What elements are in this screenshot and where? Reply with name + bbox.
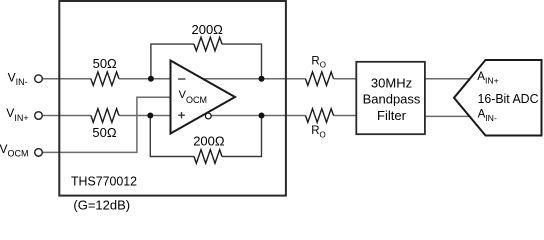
wire V_IN+ input segment <box>42 115 91 117</box>
wire Ro top to filter <box>334 78 357 80</box>
wire Ro bottom to filter <box>334 115 357 117</box>
resistor 50 ohm upper <box>91 72 119 86</box>
svg-text:50Ω: 50Ω <box>92 125 116 140</box>
terminal circle V_OCM <box>35 149 43 157</box>
filter block box <box>356 62 425 134</box>
ADC pin label A_IN- <box>478 108 497 123</box>
wire output top <box>196 78 306 80</box>
label Ro bottom <box>311 125 326 139</box>
svg-text:Bandpass: Bandpass <box>363 92 421 107</box>
svg-text:16-Bit ADC: 16-Bit ADC <box>478 91 539 106</box>
op-amp VOCM pin label <box>179 89 207 105</box>
filter block text <box>363 76 421 123</box>
wire output bottom <box>206 115 306 117</box>
wire filter to ADC A_IN+ <box>425 78 471 80</box>
label V_IN- <box>8 71 28 88</box>
wire V_IN+ to amp <box>119 115 171 117</box>
terminal circle V_IN- <box>35 75 43 83</box>
wire feedback loop top <box>151 44 262 79</box>
op-amp U1 triangle <box>171 61 236 134</box>
node junction dot bottom-left <box>147 113 153 119</box>
svg-text:200Ω: 200Ω <box>193 133 225 148</box>
label Ro top <box>311 55 326 69</box>
terminal circle V_IN+ <box>35 112 43 120</box>
ADC U2 pentagon <box>454 60 542 136</box>
svg-text:(G=12dB): (G=12dB) <box>73 198 130 213</box>
THS770012 boundary box <box>59 1 286 196</box>
resistor 50 ohm lower <box>91 109 119 123</box>
wire V_IN- input segment <box>42 78 91 80</box>
wire V_IN- to amp <box>119 78 171 80</box>
resistor Ro bottom <box>306 109 334 123</box>
node junction dot top-left <box>148 76 154 82</box>
op-amp minus input label <box>178 78 186 80</box>
node junction dot top-right <box>259 76 265 82</box>
op-amp inverted output bubble <box>205 113 211 119</box>
label V_IN+ <box>6 106 28 123</box>
wire feedback loop bottom <box>150 116 261 157</box>
svg-text:Filter: Filter <box>377 108 407 123</box>
svg-text:200Ω: 200Ω <box>191 22 223 37</box>
node junction dot bottom-right <box>259 113 265 119</box>
resistor 200 ohm bottom feedback <box>194 150 222 164</box>
svg-text:50Ω: 50Ω <box>93 56 117 71</box>
label V_OCM <box>0 142 29 159</box>
wire V_OCM run and riser <box>42 97 171 152</box>
ADC title 16-Bit ADC <box>478 91 539 106</box>
ADC pin label A_IN+ <box>477 71 498 86</box>
svg-text:THS770012: THS770012 <box>71 174 137 189</box>
resistor 200 ohm top feedback <box>194 37 222 51</box>
resistor Ro top <box>306 72 334 86</box>
op-amp plus input label <box>178 112 185 118</box>
svg-text:30MHz: 30MHz <box>371 76 412 91</box>
wire filter to ADC A_IN- <box>425 115 470 117</box>
